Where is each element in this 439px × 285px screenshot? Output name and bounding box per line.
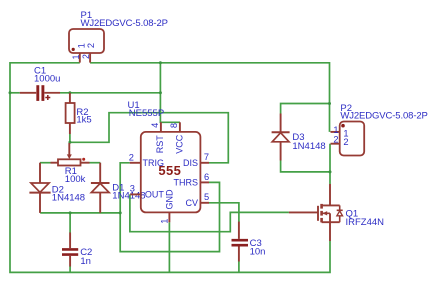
wire P2 pin2 down to Q1 drain (329, 144, 331, 184)
svg-text:CV: CV (185, 198, 198, 208)
svg-text:VCC: VCC (175, 134, 185, 154)
svg-text:WJ2EDGVC-5.08-2P: WJ2EDGVC-5.08-2P (81, 18, 169, 29)
op-amp U1 555 timer body (130, 122, 209, 222)
svg-text:DIS: DIS (183, 158, 198, 168)
transistor Q1 MOSFET IRFZ44N (289, 184, 343, 241)
svg-text:1k5: 1k5 (76, 114, 91, 125)
svg-text:1: 1 (76, 43, 86, 48)
svg-text:1: 1 (71, 54, 81, 59)
svg-text:2: 2 (86, 43, 96, 48)
wire C3 bottom to ground rail (238, 262, 240, 273)
wire D3 bottom to P2 pin2 column (281, 161, 330, 172)
svg-text:10n: 10n (250, 247, 266, 258)
wire wiper/R2 node to DIS pin 7 (70, 113, 228, 163)
capacitor C3 (232, 222, 249, 262)
svg-text:3: 3 (130, 184, 135, 194)
junction node left rail / C1 rail (9, 91, 12, 94)
junction node D-rail / TRIG vertical (119, 211, 122, 214)
capacitor C2 (62, 233, 78, 267)
svg-text:NE555P: NE555P (129, 108, 164, 119)
connector P2 (331, 122, 365, 156)
wire R2 bottom to R1 wiper column (69, 134, 71, 143)
svg-text:RST: RST (155, 135, 165, 154)
junction node D3 bottom / P2 pin2 column (329, 170, 332, 173)
svg-text:100k: 100k (65, 174, 86, 185)
wire GND pin1 of 555 down to ground rail (168, 222, 170, 272)
wire TRIG to THRS (120, 163, 219, 252)
svg-text:THRS: THRS (174, 178, 199, 188)
wire D3 top to right rail (281, 104, 330, 114)
junction node wiper tee (68, 141, 71, 144)
svg-text:5: 5 (204, 192, 209, 202)
potentiometer R1 (40, 143, 100, 166)
wire C1 rail left segment (10, 92, 20, 94)
svg-text:TRIG: TRIG (143, 158, 165, 168)
svg-text:GND: GND (165, 189, 175, 210)
svg-text:IRFZ44N: IRFZ44N (346, 217, 385, 228)
svg-text:2: 2 (343, 137, 348, 147)
svg-text:2: 2 (333, 135, 338, 145)
svg-text:1: 1 (160, 219, 170, 224)
wire diode junction rail D2/D1/C2 to TRIG vertical (40, 212, 120, 214)
wire GND: P1 pin1 to left rail, down left side, bottom rail, up to Q1 source (10, 63, 330, 273)
diode D2 (29, 163, 50, 213)
svg-text:OUT: OUT (145, 190, 165, 200)
wire VCC top rail: P1 pin2 right then down right side to P2 pin1 (90, 63, 329, 132)
connector P1 (69, 29, 104, 63)
svg-text:1000u: 1000u (34, 74, 60, 85)
diode D3 (272, 114, 290, 161)
capacitor C1 (20, 85, 60, 101)
svg-text:1N4148: 1N4148 (52, 192, 85, 203)
junction node C2 tee (69, 211, 72, 214)
svg-text:1: 1 (333, 125, 338, 135)
junction node R2 top on C1 rail (68, 91, 71, 94)
junction node C1 rail / supply vertical (159, 91, 162, 94)
wire VCC supply vertical to 555 RST/VCC link (160, 63, 180, 123)
wire C2 bottom to ground rail (69, 266, 71, 272)
wire OUT to Q1 gate (130, 194, 289, 231)
wire C2 top lead (69, 213, 71, 233)
svg-text:1N4148: 1N4148 (292, 141, 325, 152)
wire CV to C3 top (209, 203, 239, 222)
svg-text:2: 2 (81, 54, 91, 59)
svg-text:WJ2EDGVC-5.08-2P: WJ2EDGVC-5.08-2P (340, 111, 428, 122)
junction node D3 top / right rail (328, 102, 331, 105)
svg-text:4: 4 (150, 123, 160, 128)
svg-text:6: 6 (204, 172, 209, 182)
resistor R2 (66, 93, 75, 134)
svg-text:2: 2 (129, 152, 134, 162)
svg-text:7: 7 (204, 152, 209, 162)
junction node top rail / supply vertical (159, 61, 162, 64)
diode D1 (91, 163, 110, 213)
wire C1 rail right segment to supply vertical (60, 92, 160, 94)
svg-text:1n: 1n (80, 256, 91, 267)
svg-text:8: 8 (169, 123, 179, 128)
